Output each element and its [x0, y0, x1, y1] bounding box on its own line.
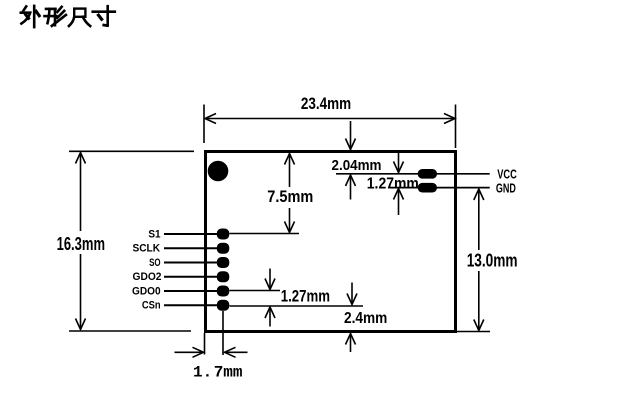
pin wire GDO2 — [164, 276, 219, 278]
wire VCC — [336, 173, 490, 175]
svg-text:1.7mm: 1.7mm — [193, 364, 243, 382]
dimension 1.27mm (pin pitch) — [230, 269, 364, 327]
pad GDO2 — [217, 271, 230, 282]
pad S1 — [217, 229, 230, 240]
svg-text:GDO2: GDO2 — [133, 271, 162, 283]
svg-text:16.3mm: 16.3mm — [57, 234, 105, 254]
pin wire S1 — [164, 233, 219, 235]
svg-text:SCLK: SCLK — [133, 243, 161, 255]
pad GDO0 — [217, 286, 230, 297]
pad SCLK — [217, 243, 230, 254]
dimension 13.0mm — [457, 189, 490, 332]
svg-text:23.4mm: 23.4mm — [301, 94, 351, 113]
svg-text:1.27mm: 1.27mm — [281, 287, 330, 306]
pad GND — [418, 183, 437, 193]
pin wire GDO0 — [164, 290, 219, 292]
svg-text:SO: SO — [149, 257, 161, 269]
pin wire SCLK — [164, 247, 219, 249]
wire GND — [388, 187, 490, 189]
dimension 7.5mm — [230, 154, 300, 234]
pin wire SO — [164, 262, 219, 264]
svg-text:GDO0: GDO0 — [132, 285, 161, 297]
title char 外 — [21, 6, 39, 27]
title char 形 — [45, 7, 66, 26]
title char 寸 — [93, 6, 115, 25]
dimension 16.3mm — [69, 151, 194, 331]
svg-text:2.4mm: 2.4mm — [344, 310, 387, 327]
dimension 23.4mm — [204, 105, 456, 149]
dimension 1.27mm (VCC-GND pitch) — [394, 153, 404, 216]
dimension 2.04mm — [346, 121, 356, 200]
pad VCC — [418, 169, 437, 179]
dimension 1.7mm — [175, 311, 248, 357]
svg-text:13.0mm: 13.0mm — [467, 251, 518, 271]
svg-text:2.04mm: 2.04mm — [332, 157, 382, 174]
svg-text:S1: S1 — [148, 228, 160, 240]
pad CSn — [217, 300, 230, 311]
pin-1 locating dot — [208, 161, 229, 182]
module outline — [206, 152, 456, 332]
pad SO — [217, 257, 230, 268]
svg-text:7.5mm: 7.5mm — [267, 187, 313, 206]
dimension 2.4mm — [346, 283, 358, 353]
pin wire CSn — [164, 304, 219, 306]
svg-text:GND: GND — [496, 180, 516, 195]
svg-text:1.27mm: 1.27mm — [367, 175, 419, 192]
svg-text:CSn: CSn — [142, 300, 161, 312]
title char 尺 — [69, 9, 90, 26]
